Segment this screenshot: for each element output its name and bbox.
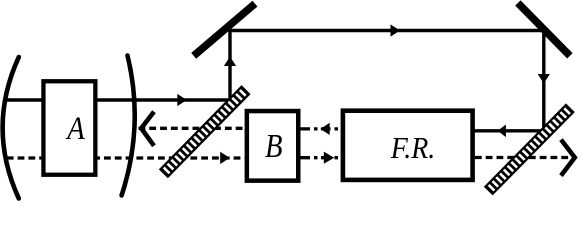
svg-text:B: B <box>265 128 283 165</box>
svg-text:A: A <box>66 111 86 147</box>
svg-text:F.R.: F.R. <box>390 130 435 165</box>
